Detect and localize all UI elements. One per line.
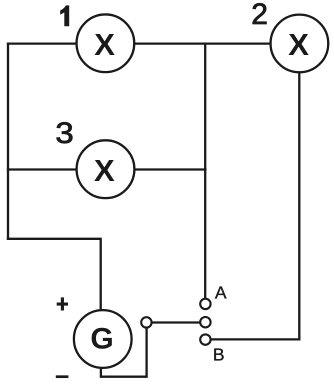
svg-text:B: B	[213, 345, 225, 365]
svg-text:G: G	[90, 323, 113, 356]
label 1	[60, 5, 69, 26]
wire top rail right: lamp 1 to lamp 2	[130, 42, 276, 44]
wire lamp 3 right to branch junction	[130, 168, 205, 170]
wire switch lever to middle contact	[151, 321, 201, 323]
svg-text:A: A	[215, 282, 227, 302]
wire left bus vertical	[7, 44, 9, 239]
contact B	[200, 334, 210, 344]
lamp X2 circle	[271, 15, 329, 73]
lamp X3 circle	[77, 140, 135, 198]
switch lever pivot contact	[141, 317, 151, 327]
lamp X1 circle	[77, 14, 135, 72]
polarity minus	[56, 375, 69, 378]
wire bus bottom bend to generator	[8, 239, 101, 315]
wire top rail left: bus to lamp 1	[8, 42, 85, 44]
svg-text:2: 2	[251, 0, 268, 31]
wire branch vertical to contact A	[204, 44, 206, 298]
contact middle	[200, 317, 210, 327]
svg-text:X: X	[288, 27, 309, 62]
wire right rail vertical to lamp 2	[298, 70, 300, 339]
wire generator bottom to switch lever	[101, 329, 147, 377]
wire lamp 3 left	[8, 168, 85, 170]
svg-text:3: 3	[55, 115, 73, 149]
svg-text:X: X	[94, 153, 115, 188]
polarity plus	[57, 297, 68, 310]
wire contact B to right rail	[208, 338, 299, 340]
generator G circle	[74, 310, 132, 368]
contact A	[200, 299, 210, 309]
svg-text:X: X	[94, 27, 115, 62]
